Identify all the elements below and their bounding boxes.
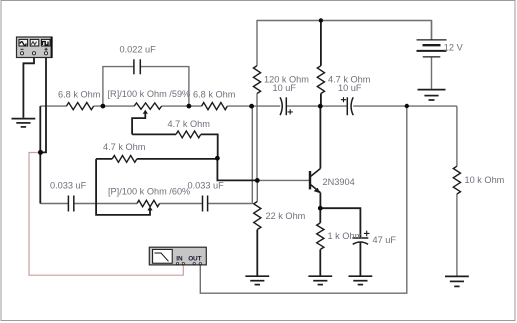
svg-text:12 V: 12 V: [444, 42, 464, 52]
svg-text:10 uF: 10 uF: [338, 83, 362, 93]
svg-text:10 k Ohm: 10 k Ohm: [465, 175, 505, 185]
svg-text:4.7 k Ohm: 4.7 k Ohm: [103, 142, 146, 152]
svg-text:[P]/100 k Ohm /60%: [P]/100 k Ohm /60%: [108, 187, 190, 197]
svg-text:0.022 uF: 0.022 uF: [120, 45, 157, 55]
svg-text:0.033 uF: 0.033 uF: [50, 181, 87, 191]
svg-text:47 uF: 47 uF: [373, 235, 397, 245]
svg-text:22 k Ohm: 22 k Ohm: [266, 211, 306, 221]
svg-text:1 k Ohm: 1 k Ohm: [328, 231, 363, 241]
svg-text:OUT: OUT: [188, 256, 201, 263]
svg-text:4.7 k Ohm: 4.7 k Ohm: [168, 119, 211, 129]
svg-text:6.8 k Ohm: 6.8 k Ohm: [193, 90, 236, 100]
svg-text:10 uF: 10 uF: [273, 83, 297, 93]
svg-text:0.033 uF: 0.033 uF: [188, 181, 225, 191]
svg-text:2N3904: 2N3904: [323, 177, 355, 187]
svg-text:[R]/100 k Ohm /59%: [R]/100 k Ohm /59%: [108, 89, 191, 99]
svg-text:IN: IN: [176, 256, 183, 263]
svg-text:6.8 k Ohm: 6.8 k Ohm: [58, 90, 101, 100]
